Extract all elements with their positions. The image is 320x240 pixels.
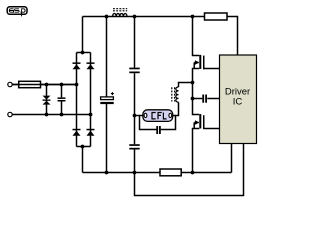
svg-text:IC: IC [233, 97, 243, 108]
